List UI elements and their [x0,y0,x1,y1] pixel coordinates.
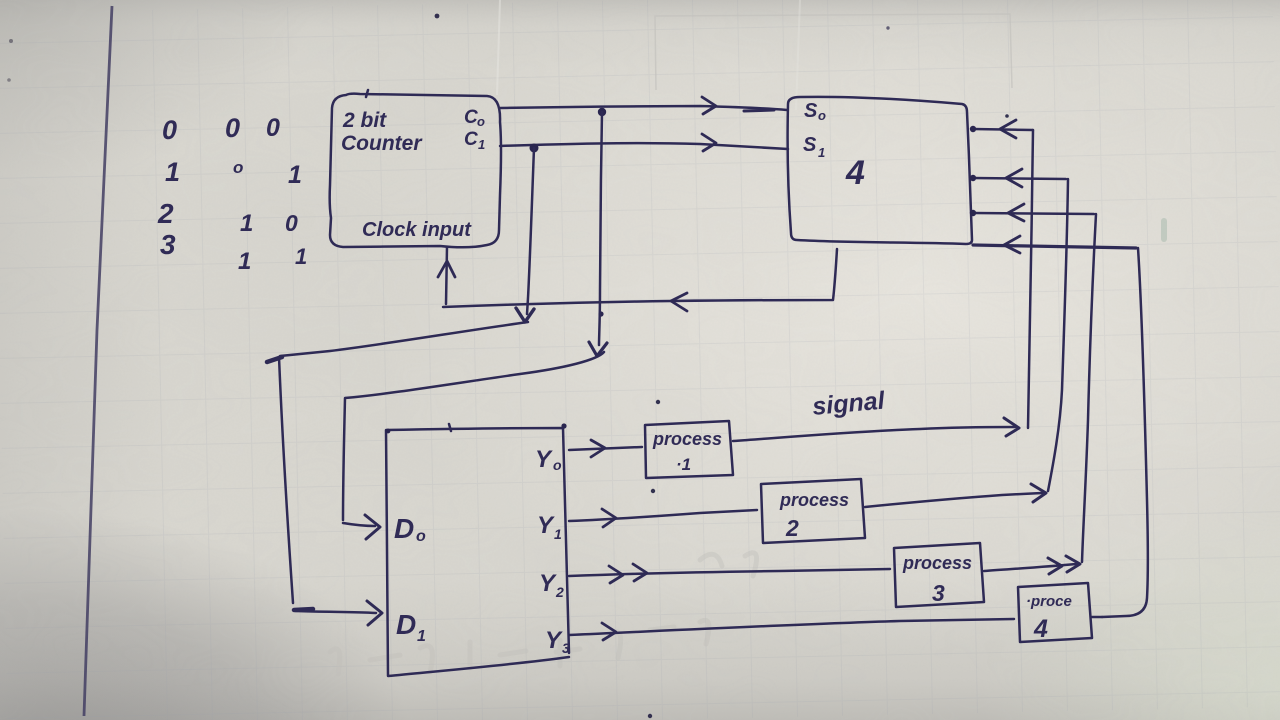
mux input stub 2 [973,178,1066,179]
crease light line [497,0,500,95]
wire: feedback from mux bottom to clock input [443,249,837,307]
wire B: C0 route to D0 (diagonal) [343,352,604,520]
svg-text:1: 1 [240,210,253,237]
arrowhead process3 output b [1066,556,1080,572]
junction dot mux stub1 [970,126,976,132]
stray dot above process row [656,400,660,404]
wire: clock input drop from counter bottom [446,247,447,304]
svg-text:1: 1 [295,244,307,269]
svg-text:4: 4 [1033,615,1048,643]
corner dot decoder top-left [386,429,391,434]
svg-text:1: 1 [818,145,825,160]
arrowhead process2 output [1031,484,1046,502]
bleed-through rectangle from reverse side (top right) [655,14,1012,90]
multiplexer box U2 [788,97,972,244]
wire: process2 output to mux line 2 [865,493,1042,507]
svg-text:3: 3 [160,229,176,260]
arrowhead Y2 a [609,566,623,583]
svg-text:process: process [902,553,972,573]
svg-text:Y: Y [545,627,563,654]
junction dot mux stub3 [970,210,976,216]
arrowhead at end of signal wire [1004,418,1019,436]
junction dot mux stub2 [970,175,976,181]
process 3 box [894,543,984,607]
arrowhead down (C1 drop) [516,308,534,322]
arrowhead into D1 [367,601,382,625]
wire A vertical down left side [279,357,293,603]
svg-text:process: process [779,490,849,510]
junction node on C1 wire [530,144,539,153]
arrowhead into mux 3 [1008,204,1024,221]
mux input stub 3 [973,213,1094,214]
tick on decoder top edge [449,424,451,431]
svg-text:Counter: Counter [341,132,423,155]
wire C1: counter to mux S1 [500,143,788,149]
wire vertical 2 (process2 to mux) [1048,179,1068,491]
2-bit counter box U1 [330,94,501,248]
stray ink dot bottom [648,714,652,718]
svg-text:Y: Y [539,570,557,597]
arrowhead up on clock wire [438,261,455,277]
overdrawn dash on C0 wire [744,110,774,111]
arrowhead into mux 4 [1004,236,1020,253]
svg-text:D: D [394,513,414,544]
svg-text:1: 1 [238,248,251,275]
svg-text:Clock input: Clock input [362,219,472,241]
ink speck top right of counter [886,26,889,29]
decoder box U3 [386,428,569,676]
mux input stub 4 [973,245,1136,248]
svg-text:Y: Y [535,446,553,473]
svg-text:o: o [477,114,485,129]
svg-text:3: 3 [562,640,570,656]
arrowhead into mux 1 [1000,120,1016,138]
svg-text:3: 3 [932,580,945,606]
svg-text:1: 1 [478,137,485,152]
svg-text:4: 4 [845,154,865,192]
ink speck left margin [9,39,13,43]
svg-text:·proce: ·proce [1026,593,1072,610]
bleed-through writing at bottom (reverse side) [330,553,757,674]
arrowhead into D0 [365,515,380,539]
wire B bottom run into D0 [343,523,375,526]
arrowhead down (C0 drop) [589,342,607,356]
svg-text:1: 1 [288,161,302,189]
svg-text:S: S [803,134,817,156]
ink speck left margin 2 [7,78,11,82]
green smudge [1161,218,1167,242]
svg-text:2 bit: 2 bit [342,109,387,132]
margin rule line of the page [84,6,112,716]
pen tick on counter top edge [366,90,368,97]
wire Y3 to process4 [569,619,1014,635]
hand written text [157,100,1072,656]
wire: process1 output (signal) to mux line 1 [733,427,1015,441]
arrowhead process3 output a [1048,558,1062,574]
wire: C1 drop down to D1 route [527,148,534,314]
arrowhead Y1 [602,509,616,527]
arrowhead Y2 b [633,564,647,581]
wire vertical 1 (process1 to mux) [1028,130,1033,428]
wire Y0 stub [569,447,642,450]
svg-text:o: o [416,528,426,545]
svg-text:2: 2 [157,198,174,229]
stray dot above Y1 wire [651,489,655,493]
svg-text:2: 2 [555,584,564,600]
wire A: C1 route to D1 (horizontal) [280,322,528,356]
arrowhead Y3 [602,623,616,640]
svg-text:0: 0 [162,115,177,145]
svg-text:o: o [233,158,243,177]
svg-text:1: 1 [165,157,180,187]
stray dot above arrow 1 [1005,114,1009,118]
svg-text:1: 1 [554,526,562,542]
svg-text:C: C [464,107,478,128]
svg-text:2: 2 [785,515,799,541]
wire vertical 4 (process4 to mux) [1102,248,1148,617]
svg-text:process: process [652,429,722,449]
pen blob at bottom corner of wire A [294,609,313,610]
svg-text:S: S [804,100,818,122]
arrowhead into mux 2 [1006,169,1022,187]
svg-text:D: D [396,609,416,640]
svg-text:o: o [818,108,826,123]
svg-text:0: 0 [225,113,240,143]
wire: process4 output stub to mux line 4 [1092,616,1102,619]
stray ink dot top [435,14,440,19]
wire C0: counter to mux S0 [500,106,787,110]
arrowhead on C0 wire [702,97,716,114]
arrowhead on C1 wire [702,134,716,151]
svg-text:Y: Y [537,512,555,539]
corner dot decoder top-right [561,423,566,428]
svg-text:1: 1 [417,628,426,645]
junction node on C0 wire [598,108,606,116]
svg-text:C: C [464,129,478,150]
pen blob at corner of wire A [267,357,282,362]
junction dot on C0 drop below feedback crossing [598,311,603,316]
process 4 box [1018,583,1092,642]
svg-text:o: o [553,457,562,473]
process 1 box [645,421,733,478]
svg-text:·1: ·1 [676,455,691,474]
wire: process3 output to mux line 3 [984,564,1076,571]
svg-text:0: 0 [266,114,280,142]
arrowhead left on feedback wire [671,293,687,311]
arrowhead Y0 [591,440,605,457]
process 2 box [761,479,865,543]
wire Y1 to process2 [569,510,757,521]
wire Y2 to process3 [569,569,890,576]
wire: C0 drop down to D0 route [599,112,602,345]
wire A bottom run into D1 [296,611,376,613]
wire vertical 3 (process3 to mux) [1082,214,1096,562]
mux input stub 1 [973,129,1033,130]
svg-text:0: 0 [285,210,298,236]
